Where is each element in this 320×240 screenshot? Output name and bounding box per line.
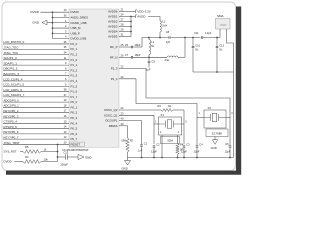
net CTS/P0_4 wire: [3, 122, 69, 124]
ground symbol bottom rail: [127, 158, 129, 161]
net ADC1/P0_1 wire: [3, 106, 69, 108]
svg-text:12pF: 12pF: [194, 149, 200, 153]
svg-text:NL: NL: [195, 47, 199, 51]
wire DVDD to resistor R4: [15, 161, 24, 163]
connector J1 SMA: [216, 19, 231, 30]
net SCL/P1_0 wire: [3, 59, 69, 61]
X1 ground leg left: [161, 135, 163, 158]
capacitor C3 12pF: [183, 145, 186, 147]
svg-text:1pF: 1pF: [166, 40, 171, 44]
svg-text:USB_P: USB_P: [71, 31, 81, 35]
svg-text:1nF: 1nF: [138, 148, 143, 152]
wire AVDD stub AVDD5: [119, 36, 131, 38]
svg-text:RF_N: RF_N: [110, 55, 118, 59]
wire RF_P rise to top line: [142, 38, 149, 48]
svg-text:1pF: 1pF: [146, 68, 151, 72]
ground symbol reset circuit: [78, 154, 84, 159]
svg-text:RTS/P0_5: RTS/P0_5: [4, 125, 18, 129]
svg-text:X1: X1: [161, 113, 165, 117]
svg-text:USB_M: USB_M: [71, 26, 82, 30]
svg-text:C13: C13: [63, 151, 68, 155]
svg-text:LCD_SCL/P1_5: LCD_SCL/P1_5: [4, 83, 25, 87]
svg-text:P1_3: P1_3: [71, 74, 78, 78]
wire C13 to ground: [68, 156, 79, 158]
svg-text:32M: 32M: [167, 139, 173, 143]
power label VDD-3.3V: [131, 11, 136, 13]
svg-text:AVDD6: AVDD6: [108, 10, 118, 14]
gnd bus vertical: [52, 12, 54, 38]
svg-text:GND: GND: [211, 146, 217, 150]
wire R4 to bus: [41, 161, 58, 163]
drop shadow bottom: [6, 171, 236, 175]
svg-text:100pF: 100pF: [60, 163, 68, 167]
crystal X2 body: [204, 110, 226, 128]
power label AVDD: [131, 16, 136, 18]
svg-text:P0_2: P0_2: [71, 111, 78, 115]
inductor L2 to AVDD: [148, 17, 160, 22]
capacitor C4 12pF: [196, 118, 198, 146]
svg-text:DVDD: DVDD: [4, 159, 12, 163]
svg-text:JTAG_TRST: JTAG_TRST: [4, 141, 21, 145]
svg-text:C6: C6: [225, 142, 229, 146]
wire stub pin 1: [53, 22, 70, 24]
net LCD_RST/P2_0 wire: [3, 43, 69, 45]
wire AVDD stub AVDD6: [119, 11, 131, 13]
svg-text:P1_2: P1_2: [71, 68, 78, 72]
svg-text:AVDD5: AVDD5: [108, 35, 118, 39]
capacitor C6 12pF: [229, 118, 231, 146]
wire rail drop to bottom: [233, 72, 235, 158]
svg-text:RESET: RESET: [71, 142, 81, 146]
net DBG/P1_2 wire: [3, 69, 69, 71]
svg-text:SYS_RST: SYS_RST: [4, 149, 17, 153]
svg-text:C5: C5: [125, 43, 129, 47]
svg-text:DVDD: DVDD: [31, 10, 40, 14]
svg-text:CTS/P0_4: CTS/P0_4: [4, 120, 18, 124]
svg-text:JTAG_TCK: JTAG_TCK: [4, 51, 19, 55]
wire GND to bus: [47, 22, 53, 24]
svg-text:VDD-3.3V: VDD-3.3V: [137, 10, 151, 14]
reset node bus vertical: [57, 144, 59, 161]
svg-text:LCD_CS/P1_4: LCD_CS/P1_4: [4, 77, 23, 81]
svg-text:56K: 56K: [121, 139, 126, 143]
svg-text:C7: C7: [125, 53, 129, 57]
svg-text:X2: X2: [208, 106, 212, 110]
svg-text:AVDD4: AVDD4: [108, 30, 118, 34]
crystal X1 body: [159, 117, 182, 135]
svg-text:P0_3: P0_3: [71, 116, 78, 120]
svg-text:P2_2: P2_2: [71, 53, 78, 57]
svg-text:12pF: 12pF: [151, 149, 157, 153]
svg-text:NL: NL: [168, 104, 172, 108]
wire RF_N stub pin 26: [119, 56, 127, 58]
svg-text:KEY6/P0_6: KEY6/P0_6: [4, 130, 19, 134]
svg-text:12pF: 12pF: [225, 149, 231, 153]
capacitor C1 1nF: [140, 144, 143, 146]
svg-text:AVDD_DREG: AVDD_DREG: [71, 15, 90, 19]
net ADC0/P0_0 wire: [3, 101, 69, 103]
capacitor C2 12pF: [153, 145, 156, 147]
net RTS/P0_5 wire: [3, 128, 69, 130]
net KEY3/P0_3 wire: [3, 117, 69, 119]
svg-text:R3: R3: [158, 104, 162, 108]
svg-text:XOSC_Q2: XOSC_Q2: [104, 108, 118, 112]
AVDD bus vertical: [130, 17, 132, 37]
svg-text:P1_0: P1_0: [71, 58, 78, 62]
wire AVDD stub AVDD1: [119, 16, 131, 18]
wire XOSC_Q2 to X1: [119, 109, 157, 111]
svg-text:P2_4: P2_4: [111, 77, 118, 81]
svg-text:P0_4: P0_4: [71, 121, 78, 125]
IC U1 left pin names: [71, 10, 90, 146]
wire SMA ground leg: [227, 29, 234, 72]
capacitor C10 shunt NL: [192, 38, 194, 46]
capacitor C9 shunt 1pF: [148, 57, 150, 61]
net LCD_SDA/P1_7 wire: [3, 96, 69, 98]
svg-text:SCL/P1_0: SCL/P1_0: [4, 56, 18, 60]
svg-text:2nH: 2nH: [165, 58, 170, 62]
capacitor C12 shunt NL: [216, 38, 218, 46]
svg-text:LCD_SDA/P1_7: LCD_SDA/P1_7: [4, 93, 25, 97]
wire AVDD stub AVDD3: [119, 26, 131, 28]
capacitor C11 series 1.2pF: [200, 36, 202, 39]
svg-text:AVDD3: AVDD3: [108, 25, 118, 29]
svg-text:C2: C2: [156, 143, 160, 147]
svg-text:P0_1: P0_1: [71, 105, 78, 109]
svg-text:KEY2/P0_2: KEY2/P0_2: [4, 109, 19, 113]
net JTAG_TCK wire: [3, 54, 69, 56]
svg-text:C1: C1: [144, 142, 148, 146]
wire SYS_RST to resistor: [20, 151, 23, 153]
wire XOSC_Q1 to X1: [119, 114, 154, 116]
wire P2_3 to X2: [119, 68, 146, 70]
svg-text:C10: C10: [195, 43, 200, 47]
net KEY2/P0_2 wire: [3, 112, 69, 114]
X2 pin stubs: [196, 115, 198, 118]
X2 value box 32.768K: [206, 129, 228, 137]
junction dot DVDD bus: [52, 11, 54, 13]
svg-text:NL: NL: [219, 47, 223, 51]
wire DVDD to pin 10: [41, 11, 70, 13]
resistor R4: [23, 160, 41, 164]
svg-text:18pF: 18pF: [135, 43, 141, 47]
svg-text:P2_0: P2_0: [71, 42, 78, 46]
svg-text:NL: NL: [151, 44, 155, 48]
net SDA/P1_1 wire: [3, 64, 69, 66]
capacitor C8 series 1pF: [168, 36, 170, 39]
net LCD_SCL/P1_5 wire: [3, 85, 69, 87]
wire bottom ground rail: [128, 157, 234, 159]
svg-text:P1_1: P1_1: [71, 63, 78, 67]
svg-text:C9: C9: [152, 60, 156, 64]
svg-text:C3: C3: [186, 143, 190, 147]
svg-text:SMA: SMA: [217, 14, 224, 18]
X1 value box 32M: [161, 137, 180, 144]
svg-text:P1_6: P1_6: [71, 90, 78, 94]
inductor L1 shunt: [148, 38, 150, 40]
svg-text:P0_7: P0_7: [71, 137, 78, 141]
X1 pin stubs: [154, 123, 159, 125]
wire X1 right branch: [183, 110, 185, 144]
IC U1 CC2540 body: [69, 9, 119, 147]
svg-text:C8: C8: [166, 30, 170, 34]
wire DCOUPL: [119, 120, 142, 122]
net KEY7/P0_7 wire: [3, 138, 69, 140]
X2 ground symbol: [214, 137, 216, 140]
svg-text:C12: C12: [219, 43, 224, 47]
svg-text:C4: C4: [199, 143, 203, 147]
card frame: [2, 2, 236, 171]
wire RF ground rail: [193, 71, 234, 73]
net BACK/P1_3 wire: [3, 75, 69, 77]
net LCD_A0/P1_6 wire: [3, 91, 69, 93]
net KEY6/P0_6 wire: [3, 133, 69, 135]
svg-text:10k: 10k: [44, 157, 49, 161]
wire AVDD stub AVDD4: [119, 31, 131, 33]
svg-text:P1_7: P1_7: [71, 95, 78, 99]
svg-text:P1_4: P1_4: [71, 79, 78, 83]
wire SMA pin to RF line: [219, 29, 221, 38]
net LCD_CS/P1_4 wire: [3, 80, 69, 82]
wire P2_4 to X2: [119, 78, 136, 80]
wire stub pin 3: [53, 32, 70, 34]
svg-text:ADC1/P0_1: ADC1/P0_1: [4, 104, 20, 108]
svg-text:R5: R5: [25, 145, 29, 149]
svg-text:AVDD1: AVDD1: [108, 15, 118, 19]
IC U1 right pin names: [104, 10, 118, 128]
svg-text:DGND_USB: DGND_USB: [71, 21, 87, 25]
IC U1 RESET pin highlight box: [70, 142, 85, 147]
wire top RF line: [149, 37, 168, 39]
svg-text:32.768K: 32.768K: [212, 131, 223, 135]
svg-text:JTAG_TDO: JTAG_TDO: [4, 46, 20, 50]
resistor R3 NL: [157, 109, 161, 111]
svg-text:KEY7/P0_7: KEY7/P0_7: [4, 135, 19, 139]
svg-text:12pF: 12pF: [181, 149, 187, 153]
svg-text:AVDD2: AVDD2: [108, 20, 118, 24]
svg-text:18pF: 18pF: [135, 53, 141, 57]
svg-text:KEY3/P0_3: KEY3/P0_3: [4, 114, 19, 118]
svg-text:XOSC_Q1: XOSC_Q1: [104, 113, 118, 117]
svg-text:ADC0/P0_0: ADC0/P0_0: [4, 98, 20, 102]
svg-text:P2_3: P2_3: [111, 67, 118, 71]
svg-text:2nH: 2nH: [162, 23, 167, 27]
ground symbol top-left: [42, 20, 47, 25]
svg-text:GND: GND: [32, 21, 40, 25]
resistor R4 crystal: [177, 135, 179, 144]
svg-text:GND: GND: [85, 156, 91, 160]
svg-text:AVDD: AVDD: [137, 15, 146, 19]
wire bus to C13: [58, 156, 65, 158]
wire stub pin 2: [53, 27, 70, 29]
svg-text:R4: R4: [25, 155, 29, 159]
svg-text:C11: C11: [194, 31, 199, 35]
drop shadow right: [236, 7, 241, 175]
svg-text:P0_6: P0_6: [71, 132, 78, 136]
wire RF_P stub pin 25: [119, 46, 127, 48]
wire RBIAS: [119, 125, 128, 127]
svg-text:P0_5: P0_5: [71, 127, 78, 131]
resistor R5: [23, 150, 41, 154]
capacitor C13 100pF: [65, 154, 67, 159]
resistor R2 56K: [126, 138, 129, 152]
inductor L3 series 2nH on RF_N: [149, 56, 167, 58]
net JTAG_TDO wire: [3, 48, 69, 50]
svg-text:DVDD: DVDD: [71, 10, 79, 14]
wire stub pin 36: [53, 16, 70, 18]
svg-text:RBIAS: RBIAS: [109, 124, 118, 128]
svg-text:DBG/P1_2: DBG/P1_2: [4, 67, 18, 71]
svg-text:R2: R2: [130, 139, 134, 143]
wire X1 left branch: [153, 115, 155, 144]
svg-text:P2_1: P2_1: [71, 47, 78, 51]
svg-text:LCD_A0/P1_6: LCD_A0/P1_6: [4, 88, 23, 92]
svg-text:P0_0: P0_0: [71, 100, 78, 104]
svg-text:RF_P: RF_P: [110, 45, 117, 49]
svg-text:SDA/P1_1: SDA/P1_1: [4, 61, 18, 65]
svg-text:DVDD_USB: DVDD_USB: [71, 37, 87, 41]
wire stub pin 4: [53, 38, 70, 40]
wire R5 to node: [41, 151, 58, 153]
net JTAG_TRST wire to RESET pin: [3, 143, 69, 145]
svg-text:GND: GND: [122, 167, 128, 171]
wire AVDD stub AVDD2: [119, 21, 131, 23]
wire RF_N rise to top line: [184, 38, 186, 58]
svg-text:1.2pF: 1.2pF: [205, 31, 212, 35]
svg-text:P1_5: P1_5: [71, 84, 78, 88]
svg-text:LCD_RST/P2_0: LCD_RST/P2_0: [4, 40, 25, 44]
svg-text:BACK/P1_3: BACK/P1_3: [4, 72, 20, 76]
svg-text:DCOUPL: DCOUPL: [105, 119, 117, 123]
